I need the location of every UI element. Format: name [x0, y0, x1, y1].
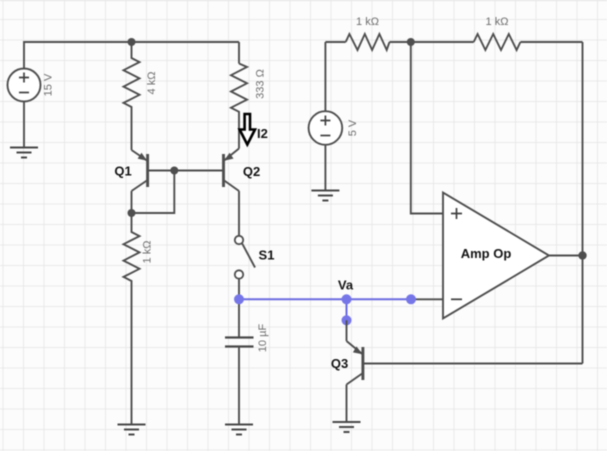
transistor Q3 [331, 320, 583, 422]
svg-text:5 V: 5 V [347, 119, 359, 136]
svg-text:10 µF: 10 µF [257, 324, 269, 353]
wire Q1 base to Q2 base [148, 170, 224, 172]
wire Q1 collector down [131, 191, 133, 213]
transistor Q2 [224, 149, 261, 192]
ground below capacitor [225, 425, 253, 435]
svg-text:15 V: 15 V [43, 73, 55, 96]
wire blue net Va vertical [346, 299, 348, 320]
wire between top resistors [390, 41, 474, 43]
wire switch to Va node [238, 279, 240, 300]
wire blue net Va horizontal [239, 298, 411, 300]
node dot top-right [407, 38, 415, 46]
wire base junction down and left to collector [132, 171, 175, 214]
svg-text:I2: I2 [257, 126, 268, 141]
wire 333 col top [238, 42, 240, 64]
svg-text:Va: Va [338, 278, 354, 293]
resistor 4 kOhm [124, 42, 159, 150]
node blue dot left [234, 294, 244, 304]
node blue dot Va [342, 294, 352, 304]
node blue dot lower [342, 315, 352, 325]
ground below V2 [311, 191, 339, 201]
ground below Q3 [333, 422, 361, 432]
svg-text:1 kΩ: 1 kΩ [486, 16, 509, 28]
svg-text:S1: S1 [259, 248, 275, 263]
op-amp U1 Amp Op [443, 193, 549, 319]
wire op-amp output [549, 255, 583, 257]
svg-text:333 Ω: 333 Ω [255, 69, 267, 99]
node dot collector junction [128, 209, 136, 217]
resistor 1 kOhm top first [346, 16, 390, 50]
capacitor 10 uF [225, 299, 269, 424]
switch S1 [235, 236, 275, 279]
svg-text:4 kΩ: 4 kΩ [146, 72, 158, 95]
wire top-left rail [24, 42, 239, 69]
resistor 333 Ohm [231, 64, 267, 149]
wire V1 to ground [23, 102, 25, 148]
resistor 1 kOhm left [124, 213, 154, 424]
wire Q2 collector down to switch [238, 191, 240, 236]
ground below V1 [10, 148, 38, 158]
svg-text:1 kΩ: 1 kΩ [356, 16, 379, 28]
resistor 1 kOhm top second [474, 16, 521, 50]
wire right rail [582, 42, 584, 364]
wire node to op-amp plus input [411, 42, 443, 214]
wire top-right rail [325, 41, 345, 43]
ground below 1 kOhm [118, 425, 146, 435]
node dot top rail [128, 38, 136, 46]
transistor Q1 [114, 150, 147, 191]
node dot base junction [170, 167, 178, 175]
node blue dot right [406, 294, 416, 304]
svg-text:Q3: Q3 [331, 356, 348, 371]
svg-text:1 kΩ: 1 kΩ [142, 241, 154, 264]
node dot op-amp output [578, 251, 586, 259]
svg-text:Q1: Q1 [114, 164, 131, 179]
wire gray to op-amp minus input [411, 298, 443, 300]
voltage source V1 15 V [8, 69, 55, 102]
svg-text:Amp Op: Amp Op [461, 246, 512, 261]
svg-text:Q2: Q2 [243, 164, 260, 179]
voltage source V2 5 V [309, 42, 359, 190]
current arrow I2 [240, 114, 268, 145]
wire second resistor to right rail [520, 41, 582, 43]
